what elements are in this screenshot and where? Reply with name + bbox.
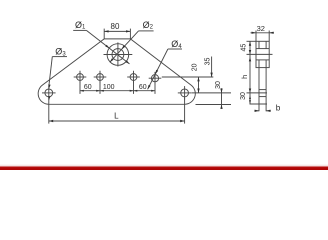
hole A (bottom row): [77, 74, 84, 81]
svg-text:30: 30: [240, 92, 247, 100]
side view plate bar right edge upper: [265, 41, 267, 48]
label O1 leader arrows: [105, 45, 109, 49]
dimension h arrows: [249, 57, 251, 61]
hole D centerlines: [149, 77, 162, 79]
dimension 80 arrows: [104, 30, 108, 32]
hole D (bottom row): [151, 75, 158, 82]
dimension 32 arrows: [252, 32, 256, 34]
side view tube outline: [256, 41, 269, 67]
side view bore line lower: [256, 59, 269, 61]
svg-text:60: 60: [139, 84, 147, 91]
side view plate bar left edge upper: [258, 41, 260, 48]
hole B (bottom row): [97, 74, 104, 81]
label O3 underline: [52, 56, 67, 58]
label O1 leader line through outer circle: [86, 30, 129, 64]
hole row extension line to right: [162, 76, 214, 78]
svg-text:100: 100: [103, 84, 115, 91]
svg-text:b: b: [276, 104, 281, 113]
label O3 leader line to left corner hole: [49, 57, 53, 87]
dimension h line: [249, 54, 251, 93]
dimension 20 arrows: [197, 77, 199, 81]
bottom edge extension line to right: [196, 104, 232, 106]
dimension 45 line: [249, 41, 251, 54]
dimension 45 arrows: [249, 41, 251, 45]
row dimension arrows: [80, 90, 84, 92]
top circle centerlines: [104, 54, 133, 56]
side view plate bar left edge lower: [258, 60, 260, 111]
dimension 35 arrow: [210, 73, 212, 77]
tube top extension to left: [247, 40, 257, 42]
label O2 leader line through inner circle: [110, 31, 139, 62]
dimension 80 line: [104, 30, 130, 32]
dimension row line 60-100-60: [80, 90, 155, 92]
svg-text:30: 30: [215, 81, 222, 89]
svg-text:35: 35: [205, 58, 212, 66]
side view corner hole centerline: [247, 92, 268, 94]
dimension 30 side arrows: [249, 95, 251, 99]
dimension b arrows: [255, 110, 259, 112]
dimension L line: [49, 120, 185, 122]
side view plate bar right edge lower: [265, 60, 267, 111]
plate outline (triangular yoke plate): [38, 39, 195, 104]
hole O3 left corner: [45, 89, 53, 97]
dimension 32 line: [251, 32, 275, 34]
svg-text:Ø4: Ø4: [171, 39, 182, 50]
dimension 30 arrows: [220, 89, 222, 93]
dimension 35 line: [211, 57, 213, 78]
label O2 underline: [139, 30, 154, 32]
svg-text:Ø1: Ø1: [75, 20, 86, 31]
side view bottom edge: [250, 103, 268, 105]
label O4 underline: [168, 48, 182, 50]
svg-text:32: 32: [257, 24, 265, 33]
hole C (bottom row): [130, 74, 137, 81]
svg-text:L: L: [114, 111, 119, 120]
svg-text:Ø3: Ø3: [55, 47, 66, 58]
svg-text:h: h: [240, 75, 249, 79]
label O4 leader line through hole D: [148, 49, 168, 89]
corner hole extension line to right: [192, 92, 231, 94]
hole right corner centerlines: [178, 92, 192, 94]
svg-text:60: 60: [84, 84, 92, 91]
red footer bar: [0, 164, 328, 171]
hole row extension lines: [79, 81, 81, 94]
hole A centerlines: [74, 76, 87, 78]
svg-text:20: 20: [191, 63, 198, 71]
hole O1/O2 top circle inner: [112, 49, 124, 61]
label O3 leader arrows: [48, 84, 50, 89]
dimension 30 side line: [249, 93, 251, 104]
svg-text:80: 80: [111, 22, 120, 31]
label O4 leader arrows: [155, 70, 158, 74]
label O1 underline: [73, 29, 86, 31]
side view horizontal centerline: [247, 53, 273, 55]
dimension L arrows: [49, 120, 53, 122]
dimension 80 extension lines: [103, 29, 105, 39]
svg-text:45: 45: [241, 44, 248, 52]
hole C centerlines: [127, 76, 140, 78]
dimension 32 extension lines: [255, 31, 257, 42]
hole left corner centerlines: [42, 92, 56, 94]
hole B centerlines: [94, 76, 107, 78]
side view bore line upper: [256, 48, 269, 50]
dimension b lines: [254, 110, 259, 112]
engineering drawing of triangular yoke plate: [0, 0, 328, 170]
svg-text:Ø2: Ø2: [143, 20, 154, 31]
label O2 leader arrows: [122, 45, 126, 49]
dimension 20 line: [198, 77, 200, 93]
dimension 30 line: [221, 88, 223, 109]
side view corner hole projection lines: [259, 89, 266, 91]
hole O3 right corner: [181, 89, 189, 97]
dimension L extension lines: [48, 97, 50, 123]
hole O1/O2 top circle outer: [107, 44, 129, 66]
